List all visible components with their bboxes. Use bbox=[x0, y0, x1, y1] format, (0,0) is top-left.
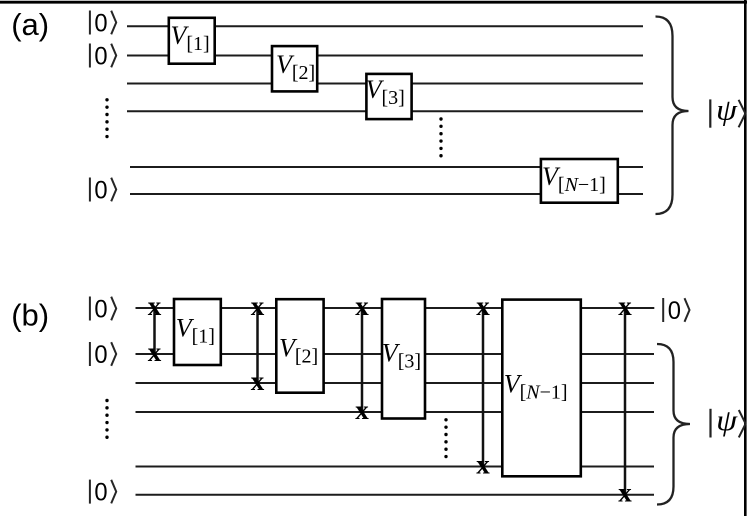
wire a5 bbox=[130, 166, 643, 168]
swap line 3 (b) bbox=[361, 308, 364, 412]
top frame border bbox=[0, 1, 747, 4]
gate V[1] (b) bbox=[174, 299, 221, 365]
gate V[2] (a) bbox=[272, 46, 317, 91]
gate V[N-1] (b) bbox=[502, 300, 581, 477]
swap cross 1 bottom bbox=[148, 337, 162, 367]
swap cross 1 top bbox=[148, 291, 162, 321]
gate V[3] (b) bbox=[382, 299, 425, 419]
swap line 1 (b) bbox=[153, 308, 156, 354]
gate V[2] (b) bbox=[276, 299, 323, 393]
ket |0> b-wire6 bbox=[90, 478, 116, 506]
wire a4 bbox=[127, 110, 643, 112]
ket |psi> (b) bbox=[711, 404, 746, 438]
dots a-left bbox=[105, 98, 108, 138]
swap line 5 (b) bbox=[624, 308, 627, 495]
ket |0> a-wire6 bbox=[90, 176, 116, 204]
ket |0> b-right bbox=[663, 297, 689, 325]
brace (b) bbox=[657, 344, 690, 505]
swap cross 2 top bbox=[251, 291, 265, 321]
svg-text:(b): (b) bbox=[11, 297, 49, 332]
svg-text:ψ: ψ bbox=[716, 404, 739, 437]
swap cross 4 top bbox=[476, 291, 490, 321]
swap cross 2 bottom bbox=[251, 366, 265, 396]
gate V[N-1] (a) bbox=[541, 159, 618, 203]
gate V[1] (a) bbox=[169, 18, 215, 64]
gate V[3] (a) bbox=[366, 74, 412, 119]
swap line 4 (b) bbox=[482, 308, 485, 467]
wire a6 bbox=[130, 193, 643, 195]
svg-text:ψ: ψ bbox=[716, 94, 739, 127]
swap line 2 (b) bbox=[256, 308, 259, 383]
wire b2 bbox=[136, 353, 655, 355]
wire a3 bbox=[127, 83, 643, 85]
ket |0> a-wire2 bbox=[90, 42, 116, 70]
ket |0> b-wire2 bbox=[90, 341, 116, 369]
wire b3 bbox=[136, 382, 655, 384]
swap cross 3 bottom bbox=[355, 395, 369, 425]
svg-text:(a): (a) bbox=[11, 7, 49, 42]
wire a1 bbox=[127, 25, 643, 27]
dots a-mid bbox=[439, 117, 442, 157]
wire a2 bbox=[127, 55, 643, 57]
ket |psi> (a) bbox=[710, 94, 745, 128]
wire b6 bbox=[136, 494, 655, 496]
swap cross 5 top bbox=[618, 291, 632, 321]
wire b4 bbox=[136, 411, 655, 413]
wire b5 bbox=[136, 466, 655, 468]
dots b-mid bbox=[444, 418, 447, 458]
swap cross 3 top bbox=[355, 291, 369, 321]
swap cross 5 bottom bbox=[618, 478, 632, 508]
dots b-left bbox=[105, 399, 108, 439]
ket |0> a-wire1 bbox=[90, 9, 116, 37]
ket |0> b-wire1 bbox=[90, 295, 116, 323]
wire b1 bbox=[136, 307, 655, 309]
swap cross 4 bottom bbox=[476, 450, 490, 480]
brace (a) bbox=[656, 17, 689, 215]
right frame border bbox=[744, 0, 747, 516]
